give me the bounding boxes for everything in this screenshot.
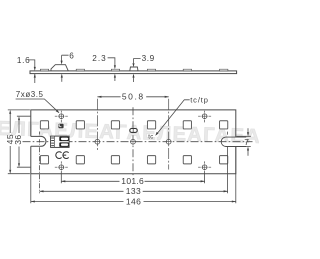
LED square row1 n5 [183,121,191,129]
hole crosshair H top-left [55,115,68,117]
dim line 101.6 [61,180,204,182]
arrow 36 top [18,116,20,120]
arrow 1.6 down [34,67,36,71]
hole crosshair V top-left [60,111,62,123]
dim 45 extension ticks [8,110,30,174]
LED square row1 n1 [40,121,48,129]
connector plan body [51,136,70,147]
side view LED bump 4 [147,69,155,71]
side view LED bump 3 [111,69,119,71]
dim line 133 [40,190,228,192]
hole 7 bottom-right [202,165,207,170]
LED square row1 n3 [111,121,119,129]
arrow 45 top [9,110,11,114]
horizontal centerline [23,141,253,143]
leader tc/tp [156,100,189,135]
dim 3.9 leader [134,59,141,64]
vertical centerline [132,107,134,176]
hole crosshair V bottom-right [204,161,206,172]
dimension lines group [8,97,251,203]
arrow 6 down [61,61,63,65]
dimension texts [5,51,250,206]
dim line 7 [247,128,249,156]
hole 4 center [131,139,136,144]
LED square row1 n6 [220,121,228,129]
arrow 133 right [224,190,228,192]
hole crosshair V top-right [204,111,206,123]
hole crosshair H bottom-right [198,166,211,168]
side view LED bump 6 [220,69,228,71]
dim line 36 [18,120,20,163]
LED square row2 n4 [147,156,155,164]
arrow 3.9 up [132,74,134,78]
arrow 101.6 right [201,180,205,182]
dim line 50.8 [97,96,168,98]
LED square row1 n4 [147,121,155,129]
arrow 45 bottom [9,170,11,174]
arrow 2.3 down [114,65,116,69]
hole 2 bottom-left [59,165,64,170]
svg-text:146: 146 [126,196,141,206]
extension line 50.8 left through hole [96,99,98,150]
arrow 146 right [232,200,236,202]
logo glyph on pcb [58,124,63,129]
dim 1.6 leader [28,60,35,67]
dim 6 leader [62,55,69,61]
dim 2.3 leader [108,58,115,66]
hole 3 mid-left [95,139,100,144]
extension line 50.8 right through hole [168,99,170,170]
plan view right slot [221,137,246,146]
svg-text:6: 6 [69,51,74,60]
svg-text:3.9: 3.9 [142,54,155,63]
svg-text:36: 36 [13,134,23,144]
arrowheads [9,61,249,203]
arrow leader tctp [155,132,158,136]
hole crosshair H top-right [198,115,211,117]
plan view left notch [31,136,46,146]
LED square row2 n5 [183,156,191,164]
arrow 7 up [247,147,249,151]
arrow 50.8 left [97,96,101,98]
dim line 45 [9,114,11,170]
LED square row2 n1 [40,156,48,164]
hole 6 top-right [202,114,207,119]
side view LED bump 2 [76,69,84,71]
svg-text:tc/tp: tc/tp [190,95,209,104]
LED square row2 n3 [111,156,119,164]
LED square row2 n6 [220,156,228,164]
connector wire port bottom [59,142,69,147]
arrow 3.9 down [132,63,134,67]
arrow 146 left [31,200,35,202]
watermark [0,118,261,148]
dim 101.6 extensions [61,172,204,183]
CE mark [56,152,69,159]
hole crosshair H bottom-left [55,166,68,168]
connector lever stripes [51,138,54,146]
arrow 101.6 left [61,180,65,182]
svg-text:2.3: 2.3 [92,54,106,63]
LED square row2 n2 [76,156,84,164]
arrow 2.3 up [114,74,116,78]
dim 36 extension ticks [17,116,31,167]
dim line 146 [31,201,236,203]
connector wire port top [59,137,69,142]
dim 7 slot ticks [236,136,250,146]
hole cross ticks [58,113,207,170]
side view LED bump 5 [183,69,191,71]
side view LED bump 1 [40,69,48,71]
arrow 1.6 up [34,74,36,78]
LED square row1 n2 [76,121,84,129]
arrow 36 bottom [18,163,20,167]
hole crosshair V bottom-left [60,161,62,172]
arrow leader hole [56,110,60,113]
arrow 50.8 right [165,96,169,98]
plan view board outline [31,110,236,174]
leader 7xd3.5 [16,99,59,113]
hole 5 mid-right [166,139,171,144]
svg-text:101.6: 101.6 [121,176,144,186]
svg-text:7xø3.5: 7xø3.5 [16,90,44,99]
side view capsule component profile [130,67,138,71]
svg-text:1.6: 1.6 [17,56,30,65]
hole 1 top-left [59,114,64,119]
side view PCB bar [30,71,237,74]
dim 146 extensions [31,147,236,204]
svg-text:50.8: 50.8 [122,91,145,101]
svg-text:tc: tc [148,135,153,141]
arrow 6 up [61,74,63,78]
arrow 7 down [247,132,249,136]
side view connector profile [51,65,68,71]
dim 133 extensions [39,147,41,193]
arrow 133 left [40,190,44,192]
svg-text:7: 7 [244,137,249,147]
svg-text:133: 133 [126,186,141,196]
capsule component plan [130,129,137,133]
